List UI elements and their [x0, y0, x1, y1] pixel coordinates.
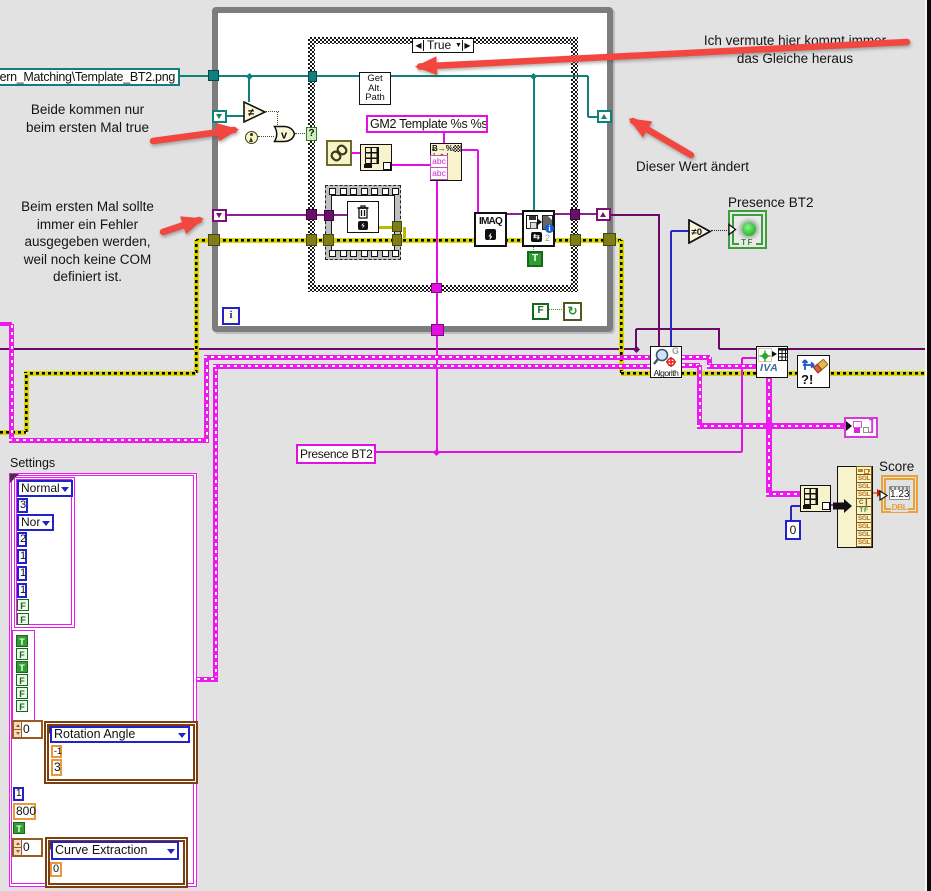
- cluster Settings frame: [9, 473, 197, 887]
- path constant Template_BT2: [0, 68, 180, 86]
- cluster Rotation Angle: [44, 721, 198, 784]
- shift register purple left (down arrow): [212, 209, 227, 222]
- numeric 2: [17, 532, 27, 547]
- annotation Dieser Wert: [636, 158, 756, 176]
- error wire down far left: [24, 373, 29, 432]
- cluster wire up to settings rail: [204, 357, 209, 442]
- wire left shift register to not-equal: [227, 115, 245, 117]
- cluster wire IVA output down: [766, 377, 772, 494]
- wire bool T to save node: [533, 246, 534, 256]
- cluster wire down far left: [9, 324, 14, 440]
- case selector terminal ?: [306, 127, 317, 141]
- cluster wire to IVA: [707, 364, 756, 369]
- tunnel image case right: [570, 209, 580, 220]
- wire string Presence BT2 to right: [374, 451, 742, 453]
- error wire tunnel drop: [403, 227, 406, 238]
- label Presence BT2: [728, 195, 808, 209]
- ring control Nor: [17, 514, 54, 531]
- case selector True: [412, 38, 474, 53]
- indicator cluster array: [844, 417, 878, 438]
- numeric 1 d: [13, 787, 24, 801]
- wire string into IVA: [742, 357, 756, 359]
- wire image save to right SR: [553, 213, 598, 215]
- junction string wire: [433, 448, 440, 455]
- wire string up to IVA: [741, 358, 743, 452]
- coercion arrow: [832, 498, 854, 514]
- node Get Alt Path: [359, 72, 391, 105]
- Score terminal arrow: [876, 487, 889, 501]
- spin numeric 0 b: [12, 838, 43, 857]
- numeric 0 curve: [50, 862, 62, 877]
- purple wire to right edge behind IVA: [719, 348, 931, 351]
- boolean constant T: [527, 251, 543, 267]
- wire string GM2 to format node: [443, 133, 445, 143]
- cluster wire into Algorith lower: [213, 364, 650, 369]
- node array to cluster: [360, 144, 392, 171]
- node clear overlay (?! eraser): [797, 355, 830, 388]
- shift register teal right (up arrow): [597, 110, 612, 123]
- ring control Rotation Angle: [50, 726, 190, 743]
- node format into string: [430, 143, 462, 181]
- boolean F 2: [17, 613, 29, 625]
- node IMAQ create: [474, 212, 507, 247]
- node register template (chain link): [326, 140, 352, 166]
- cluster wire down: [697, 365, 702, 426]
- tunnel path on case left: [308, 71, 317, 82]
- cluster wire settings connect: [197, 677, 218, 682]
- string constant GM2 Template: [366, 115, 488, 133]
- purple wire detour over Algorith: [636, 328, 720, 330]
- boolean array element 5: [16, 687, 28, 699]
- cluster wire horizontal low: [9, 438, 209, 443]
- tunnel image case left: [306, 209, 317, 220]
- boolean array element 2: [16, 648, 28, 660]
- wire path branch down to save node: [533, 77, 535, 211]
- numeric 3 rotation: [51, 759, 62, 776]
- wire i32 Algorith to not-equal-0: [670, 231, 672, 347]
- tunnel string case bottom: [431, 283, 442, 293]
- wire index array to coercion: [829, 504, 834, 506]
- wire bool not-equal out: [266, 111, 279, 112]
- wire path down to right shift register: [587, 76, 589, 117]
- error wire dispose node to tunnel: [379, 226, 397, 229]
- cluster Curve Extraction: [45, 837, 188, 888]
- wire image down to Algorith top: [658, 215, 660, 347]
- node First Call?: [245, 131, 258, 144]
- boolean constant F: [532, 303, 549, 320]
- annotation Beide kommen: [10, 101, 165, 136]
- annotation Ich vermute: [655, 32, 931, 67]
- tunnel image film left: [324, 210, 334, 221]
- shift register purple right (up arrow): [596, 208, 611, 221]
- wire string down to IMAQ: [477, 150, 479, 212]
- ring control Normal: [17, 480, 73, 497]
- indicator Score: [881, 475, 918, 513]
- flat sequence structure (film strip): [325, 185, 401, 260]
- wire string below loop: [436, 336, 438, 452]
- tunnel error film right lower: [392, 234, 402, 246]
- wire bool first-call to OR: [258, 136, 274, 137]
- shift register teal left (down arrow): [212, 110, 227, 123]
- numeric -1: [51, 745, 62, 758]
- error wire outside-left into loop: [196, 238, 212, 243]
- wire bool F to loop condition: [547, 309, 564, 310]
- node OR: [273, 125, 296, 143]
- node index array: [800, 485, 831, 512]
- numeric 800: [13, 803, 36, 820]
- node unbundle by name: [837, 466, 873, 548]
- tunnel error case left: [306, 234, 317, 246]
- wire i32 const 0 up: [790, 506, 792, 521]
- error wire down right side: [619, 240, 624, 373]
- tunnel error loop left: [208, 234, 220, 246]
- wire chain node to array-to-cluster: [352, 152, 360, 154]
- purple wire up-detour: [635, 329, 637, 349]
- cluster wire from left edge top: [0, 322, 12, 326]
- indicator Presence BT2 LED: [728, 210, 767, 249]
- error wire loop to right: [612, 238, 622, 243]
- node IVA: [756, 346, 788, 378]
- wire i32 into not-equal-0: [671, 230, 690, 232]
- error wire long horizontal to right edge: [621, 371, 931, 376]
- string constant Presence BT2: [296, 444, 376, 464]
- boolean T single: [13, 822, 25, 834]
- wire bool down to OR: [277, 112, 278, 127]
- boolean array element 4: [16, 674, 28, 686]
- node IMAQ write file (save): [522, 210, 555, 247]
- wire string between tunnels: [436, 293, 438, 325]
- boolean array element 3: [16, 661, 28, 673]
- constant 0: [785, 520, 801, 540]
- boolean array element 6: [16, 700, 28, 712]
- purple wire detour down: [718, 329, 720, 349]
- sub-cluster match settings: [14, 477, 75, 628]
- long purple wire from left edge: [0, 348, 637, 351]
- tunnel error film right upper: [392, 221, 402, 232]
- node Algorith (search algorithm): [650, 346, 682, 378]
- error wire across loop: [217, 238, 604, 243]
- wire image IMAQ to save: [505, 213, 523, 215]
- error wire down left side: [194, 240, 199, 373]
- wire format node right out: [461, 149, 478, 151]
- node not equal 0: [688, 219, 712, 244]
- boolean F 1: [17, 599, 29, 611]
- junction path wire: [246, 73, 253, 80]
- numeric 1a: [17, 549, 27, 564]
- numeric 1c: [17, 583, 27, 598]
- wire path constant to loop tunnel: [178, 75, 212, 77]
- loop iteration terminal i: [222, 307, 240, 325]
- spin numeric 0 a: [12, 720, 43, 739]
- tunnel path on loop left: [208, 70, 219, 81]
- wire path branch down to not-equal node: [248, 76, 250, 102]
- sub-cluster boolean array: [12, 630, 35, 721]
- junction cluster wires: [763, 420, 774, 431]
- loop condition terminal: [563, 302, 582, 321]
- cluster wire to array indicator: [697, 423, 844, 429]
- tunnel error film left: [323, 234, 334, 246]
- while loop frame: [212, 7, 613, 332]
- boolean array element 1: [16, 635, 28, 647]
- junction path wire 2: [530, 73, 537, 80]
- ring control Curve Extraction: [51, 841, 179, 860]
- label Score: [879, 459, 919, 474]
- node not equal: [243, 101, 267, 123]
- error wire horizontal left: [24, 371, 196, 376]
- wire i32 into index node: [791, 505, 800, 507]
- annotation Beim ersten Mal: [5, 198, 170, 286]
- window edge light: [925, 0, 927, 891]
- cluster wire to index array node: [766, 491, 800, 497]
- error wire exit left edge: [0, 430, 26, 435]
- wire bool not-equal-0 to LED: [711, 230, 729, 231]
- numeric 1b: [17, 566, 27, 581]
- wire array-to-cluster to format node: [392, 164, 430, 166]
- wire path inside loop to right: [217, 75, 588, 77]
- case structure border (checkered): [308, 37, 578, 44]
- cluster wire settings up: [213, 366, 218, 679]
- node IMAQ dispose (trash can): [347, 201, 379, 233]
- wire string format node down to case tunnel: [436, 179, 438, 283]
- wire dbl to Score terminal: [871, 492, 878, 494]
- numeric 3: [17, 498, 28, 513]
- junction purple wire: [632, 345, 639, 352]
- label Settings: [10, 456, 70, 470]
- wire image left SR to dispose node: [227, 214, 349, 216]
- cluster wire Algorith out2: [682, 363, 700, 368]
- cluster wire jog down: [707, 357, 712, 366]
- LED terminal arrow: [728, 223, 737, 236]
- tunnel error loop right: [603, 233, 616, 246]
- cluster wire Algorith out1: [682, 355, 710, 360]
- wire path into right shift register: [588, 116, 598, 118]
- tunnel error case right: [570, 234, 581, 246]
- wire bool OR to case selector: [295, 133, 307, 134]
- wire image right SR outward: [611, 214, 660, 216]
- window edge dark bar: [927, 0, 931, 891]
- cluster wire into Algorith upper: [204, 355, 650, 360]
- tunnel string loop bottom: [431, 324, 444, 336]
